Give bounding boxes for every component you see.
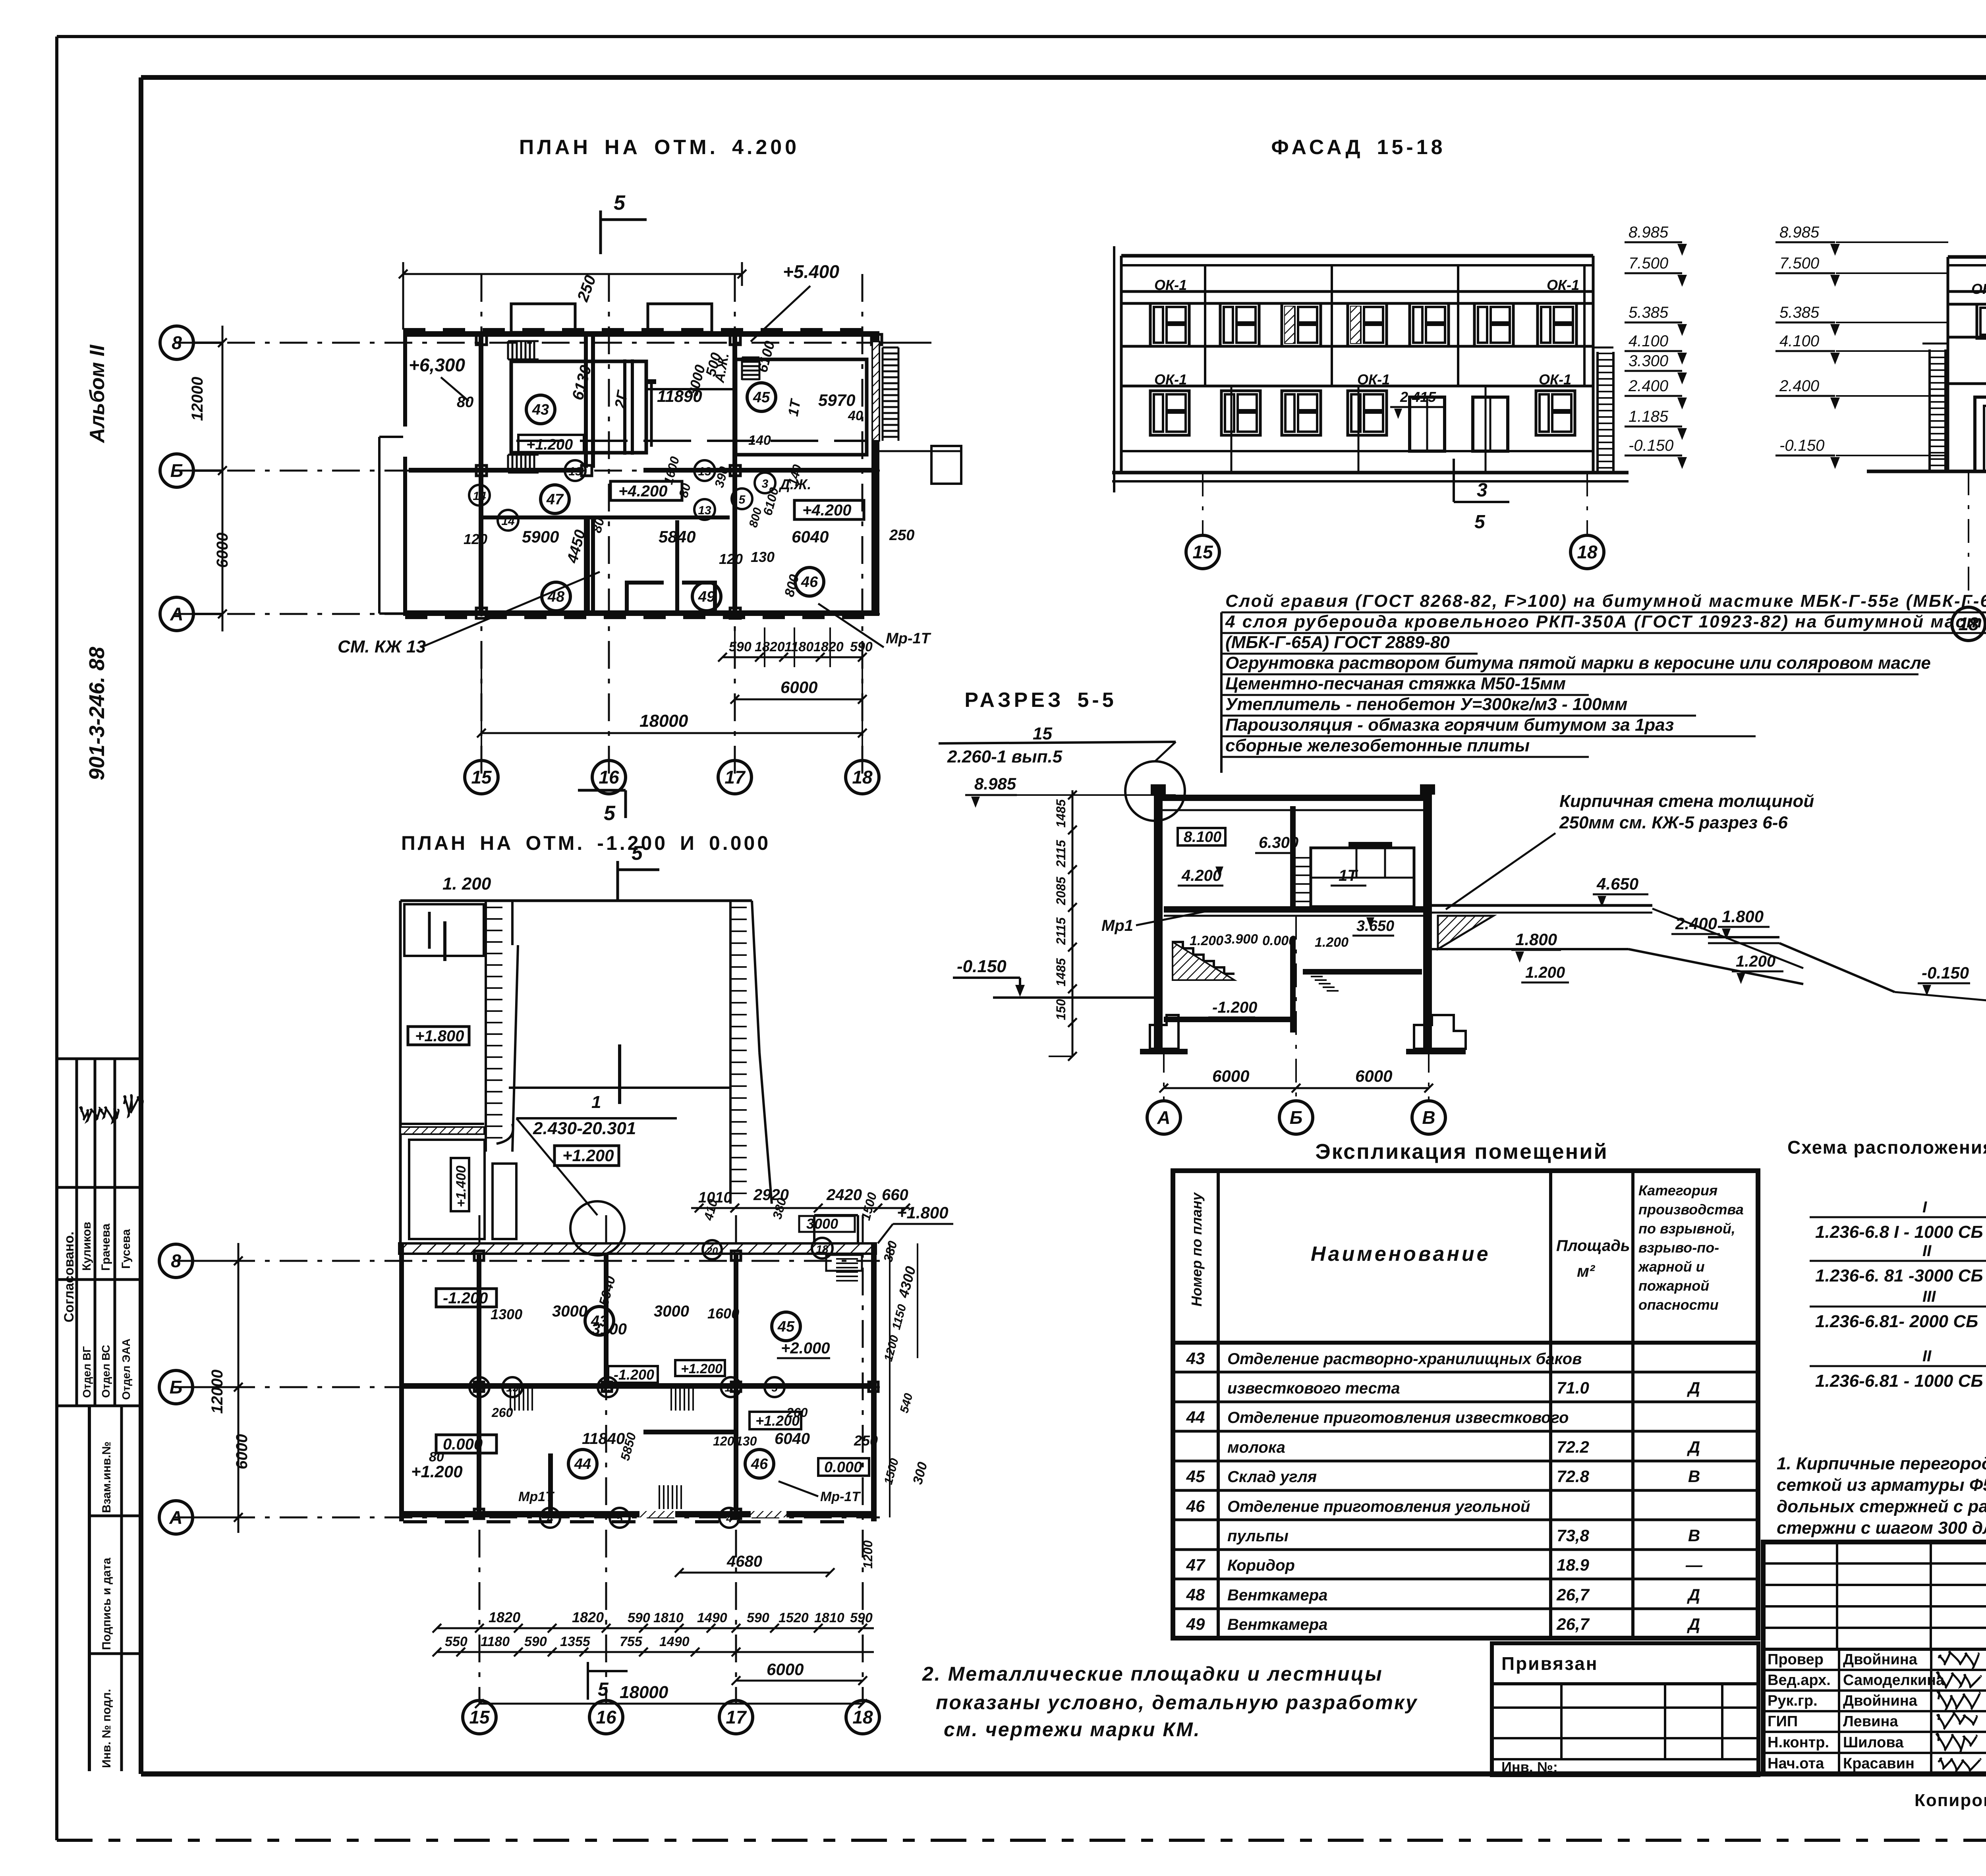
svg-text:46: 46	[801, 574, 818, 591]
svg-text:72.8: 72.8	[1557, 1467, 1589, 1486]
svg-text:1600: 1600	[707, 1305, 739, 1322]
svg-text:130: 130	[751, 549, 775, 565]
facade 15-18: horizontal lines	[1121, 290, 1593, 293]
svg-text:Провер: Провер	[1768, 1651, 1824, 1668]
svg-text:13: 13	[724, 1382, 737, 1394]
plan2: outer walls of room block	[399, 1243, 404, 1521]
svg-text:1820: 1820	[489, 1609, 520, 1625]
plan 4.200: left axis circles	[160, 326, 193, 359]
svg-text:13: 13	[698, 465, 711, 478]
svg-text:III: III	[1922, 1288, 1936, 1305]
svg-text:+1.400: +1.400	[454, 1166, 469, 1207]
svg-text:3.900: 3.900	[1224, 932, 1258, 947]
svg-text:4.100: 4.100	[1629, 332, 1668, 350]
plan 4.200: dimension line top	[403, 273, 742, 275]
svg-text:1490: 1490	[697, 1610, 727, 1625]
svg-text:250мм см. КЖ-5 разрез 6-6: 250мм см. КЖ-5 разрез 6-6	[1559, 813, 1788, 832]
svg-text:+1.200: +1.200	[526, 436, 573, 453]
svg-text:В: В	[1422, 1107, 1435, 1128]
svg-text:1520: 1520	[779, 1610, 809, 1625]
svg-text:Красавин: Красавин	[1843, 1755, 1915, 1772]
svg-text:130: 130	[736, 1434, 757, 1448]
svg-text:12000: 12000	[189, 377, 206, 421]
plan2: bottom axis circles	[463, 1700, 496, 1734]
svg-text:260: 260	[786, 1405, 808, 1420]
svg-text:(МБК-Г-65А) ГОСТ 2889-80: (МБК-Г-65А) ГОСТ 2889-80	[1225, 633, 1450, 652]
section: parapet tops	[1151, 784, 1166, 795]
svg-text:А: А	[170, 604, 183, 624]
svg-text:Согласовано.: Согласовано.	[62, 1231, 77, 1322]
plan 4.200: right outside lines	[879, 342, 931, 344]
svg-text:15: 15	[469, 1707, 490, 1727]
svg-text:1.800: 1.800	[1515, 930, 1557, 949]
svg-text:2.400: 2.400	[1675, 914, 1717, 933]
svg-text:8: 8	[172, 332, 182, 353]
title block: signature rows	[1838, 1649, 1840, 1774]
plan2: elevation boxes	[436, 1289, 496, 1307]
svg-text:13: 13	[568, 465, 582, 478]
svg-text:-0.150: -0.150	[1629, 437, 1673, 454]
explication table frame	[1173, 1171, 1758, 1638]
svg-text:Отдел ВГ: Отдел ВГ	[81, 1346, 93, 1398]
svg-text:3000: 3000	[654, 1303, 689, 1320]
svg-text:71.0: 71.0	[1557, 1378, 1589, 1397]
svg-text:ОК-1: ОК-1	[1971, 281, 1986, 297]
section: right gallery/ramp	[1432, 904, 1652, 907]
svg-text:Копировал: Коршунова: Копировал: Коршунова	[1915, 1791, 1986, 1810]
svg-text:1Т: 1Т	[1339, 867, 1358, 884]
svg-text:ОК-1: ОК-1	[1154, 371, 1187, 388]
svg-text:4680: 4680	[726, 1553, 762, 1570]
svg-text:15: 15	[1033, 724, 1052, 743]
svg-text:Вед.арх.: Вед.арх.	[1768, 1672, 1831, 1689]
svg-text:6040: 6040	[792, 527, 829, 546]
svg-text:6000: 6000	[214, 533, 231, 568]
svg-text:Левина: Левина	[1843, 1713, 1898, 1730]
plan2: interior walls	[477, 1254, 481, 1517]
svg-text:49: 49	[1186, 1615, 1205, 1633]
svg-text:3: 3	[1477, 480, 1488, 501]
svg-text:+1.200: +1.200	[681, 1361, 723, 1376]
svg-text:ОК-1: ОК-1	[1547, 277, 1579, 293]
svg-text:45: 45	[1186, 1467, 1205, 1486]
svg-text:8.985: 8.985	[974, 774, 1016, 793]
svg-text:Н.контр.: Н.контр.	[1768, 1734, 1829, 1751]
outer sheet border	[57, 35, 1986, 38]
svg-text:Категория: Категория	[1638, 1182, 1717, 1199]
svg-text:46: 46	[1186, 1497, 1205, 1515]
plan 4.200: interior walls	[479, 337, 483, 610]
svg-text:2.260-1 вып.5: 2.260-1 вып.5	[947, 747, 1063, 766]
svg-text:Самоделкина: Самоделкина	[1843, 1672, 1945, 1689]
plan 4.200: small wall stubs and door squares	[476, 334, 487, 345]
plan 4.200: section mark 5 bottom	[578, 789, 626, 792]
section: upper interior	[1311, 848, 1414, 907]
svg-text:Схема расположения элементов: Схема расположения элементов заполнения …	[1787, 1137, 1986, 1158]
svg-text:80: 80	[429, 1449, 444, 1465]
plan2: big node circle	[570, 1201, 624, 1255]
svg-text:660: 660	[882, 1186, 908, 1204]
svg-text:2.430-20.301: 2.430-20.301	[533, 1119, 636, 1138]
plan 4.200: small axis bubbles inside	[565, 460, 585, 481]
facade 18-15: outline	[1948, 255, 1986, 259]
facade 15-18: doors	[1410, 397, 1445, 451]
plan2: left chute with ticks	[485, 901, 487, 1152]
section: detail circle	[1125, 761, 1185, 821]
plan2: left axis circles	[159, 1244, 193, 1278]
svg-text:ПЛАН НА ОТМ. -1.200 И 0.000: ПЛАН НА ОТМ. -1.200 И 0.000	[401, 832, 771, 854]
svg-text:1.200: 1.200	[1736, 953, 1775, 970]
svg-text:СМ. КЖ 13: СМ. КЖ 13	[338, 637, 426, 656]
svg-text:16: 16	[596, 1707, 616, 1727]
plan 4.200: tambour L-walls at bottom	[625, 584, 629, 612]
facade 15-18: section mark 3/5	[1453, 459, 1455, 502]
svg-text:7.500: 7.500	[1779, 255, 1819, 272]
svg-text:Гусева: Гусева	[120, 1229, 133, 1269]
svg-text:пульпы: пульпы	[1227, 1527, 1289, 1545]
svg-text:5: 5	[614, 191, 626, 214]
svg-text:Инв. № подл.: Инв. № подл.	[100, 1689, 113, 1768]
svg-text:1820: 1820	[755, 639, 785, 654]
svg-text:Огрунтовка раствором битума пя: Огрунтовка раствором битума пятой марки …	[1225, 653, 1931, 673]
svg-text:Д: Д	[1687, 1615, 1700, 1633]
left margin stamp cells	[88, 1406, 91, 1771]
svg-text:44: 44	[1186, 1408, 1205, 1426]
facade 15-18: lower windows	[1150, 391, 1189, 435]
svg-text:2.400: 2.400	[1628, 377, 1668, 395]
svg-text:Альбом II: Альбом II	[86, 344, 109, 444]
svg-text:140: 140	[748, 433, 771, 448]
plan 4.200: left lower outer wall	[403, 457, 407, 616]
plan2: wall junction squares	[474, 1251, 484, 1260]
svg-text:0.000: 0.000	[824, 1459, 862, 1476]
svg-text:590: 590	[729, 639, 752, 654]
svg-text:45: 45	[753, 389, 770, 406]
svg-text:18.9: 18.9	[1557, 1556, 1589, 1574]
facade 15-18: fire ladder right	[1596, 352, 1599, 473]
plan 4.200: bottom dimension chains	[723, 656, 862, 658]
plan2: labels in tank area	[408, 1027, 469, 1045]
svg-text:Рук.гр.: Рук.гр.	[1768, 1693, 1818, 1709]
section: small stair right of axis B	[1307, 972, 1319, 974]
svg-text:901-3-246. 88: 901-3-246. 88	[85, 647, 109, 780]
svg-text:4: 4	[726, 1512, 732, 1525]
svg-text:13: 13	[601, 1382, 614, 1394]
svg-text:18: 18	[1577, 542, 1598, 562]
svg-text:4.200: 4.200	[1181, 867, 1221, 884]
plan 4.200: stairs top-left	[507, 341, 509, 359]
svg-text:755: 755	[620, 1634, 643, 1649]
svg-text:взрыво-по-: взрыво-по-	[1638, 1239, 1719, 1256]
svg-text:5900: 5900	[522, 527, 559, 546]
svg-text:В: В	[1688, 1526, 1700, 1545]
plan 4.200: right wall hatch	[871, 337, 879, 615]
svg-text:250: 250	[854, 1432, 878, 1449]
section: building outline	[1154, 795, 1432, 801]
svg-text:2. Металлические площадки: 2. Металлические площадки и лестницы	[922, 1663, 1383, 1685]
svg-text:1.236-6. 81 -3000 СБ: 1.236-6. 81 -3000 СБ	[1815, 1266, 1983, 1285]
svg-text:6000: 6000	[233, 1434, 251, 1469]
svg-text:-0.150: -0.150	[957, 957, 1007, 976]
svg-text:5.385: 5.385	[1779, 304, 1820, 321]
section: elevation boxes inside	[1178, 828, 1225, 845]
svg-text:ПЛАН НА ОТМ. 4.200: ПЛАН НА ОТМ. 4.200	[519, 136, 800, 159]
svg-text:Двойнина: Двойнина	[1843, 1693, 1918, 1709]
svg-text:17: 17	[724, 767, 746, 787]
svg-text:опасности: опасности	[1638, 1297, 1719, 1313]
svg-text:-1.200: -1.200	[443, 1289, 488, 1307]
section mark 5 above plan	[599, 210, 602, 254]
plan 4.200: monorail dashed line	[516, 440, 866, 442]
plan2: section mark 5 bottom	[587, 1662, 589, 1700]
svg-text:1820: 1820	[572, 1609, 604, 1625]
svg-text:стержни с шагом 300 длиной: стержни с шагом 300 длиной 100 мм	[1777, 1518, 1986, 1538]
svg-text:-0.150: -0.150	[1779, 437, 1824, 454]
plan2: tank structure top	[400, 899, 752, 902]
svg-text:1.800: 1.800	[1722, 907, 1764, 926]
svg-text:590: 590	[524, 1634, 547, 1649]
svg-text:1300: 1300	[491, 1306, 522, 1322]
svg-text:Отдел ВС: Отдел ВС	[100, 1345, 112, 1398]
svg-text:13: 13	[506, 1382, 519, 1394]
svg-text:14: 14	[473, 490, 486, 503]
svg-text:Б: Б	[170, 460, 184, 481]
svg-text:18: 18	[852, 1707, 873, 1727]
svg-text:Взам.инв.№: Взам.инв.№	[100, 1442, 113, 1513]
svg-text:Д: Д	[1687, 1438, 1700, 1456]
svg-text:3000: 3000	[552, 1303, 587, 1320]
svg-text:73,8: 73,8	[1557, 1526, 1589, 1545]
svg-text:Отделение приготовления угольн: Отделение приготовления угольной	[1227, 1498, 1530, 1515]
svg-text:II: II	[1922, 1242, 1932, 1260]
svg-text:15: 15	[1192, 542, 1213, 562]
plan2: small axis bubbles	[469, 1377, 489, 1397]
svg-text:44: 44	[574, 1456, 591, 1473]
svg-text:Двойнина: Двойнина	[1843, 1651, 1918, 1668]
svg-text:120: 120	[719, 551, 743, 567]
svg-text:А: А	[1157, 1107, 1170, 1128]
svg-text:6000: 6000	[1355, 1067, 1392, 1085]
svg-text:260: 260	[491, 1405, 513, 1420]
svg-text:Слой гравия (ГОСТ 8268-82, F>1: Слой гравия (ГОСТ 8268-82, F>100) на бит…	[1225, 591, 1986, 611]
svg-text:20: 20	[706, 1245, 718, 1257]
svg-text:8.985: 8.985	[1779, 224, 1820, 241]
plan 4.200: stair mid (axis17)	[742, 357, 759, 359]
svg-text:+1.200: +1.200	[562, 1146, 614, 1165]
svg-text:6.300: 6.300	[1259, 834, 1298, 851]
svg-text:Склад угля: Склад угля	[1227, 1468, 1317, 1486]
svg-text:+6,300: +6,300	[409, 355, 465, 375]
plan2: stairs bottom door hatches	[639, 1511, 675, 1517]
facade 18-15: door	[1975, 397, 1986, 471]
svg-text:+4.200: +4.200	[618, 483, 667, 500]
svg-text:1. 200: 1. 200	[442, 874, 491, 894]
svg-text:120: 120	[713, 1434, 734, 1448]
svg-text:1355: 1355	[560, 1634, 591, 1649]
svg-text:Венткамера: Венткамера	[1227, 1586, 1327, 1604]
plan 4.200: axis dash-dot lines	[175, 342, 880, 344]
svg-text:1820: 1820	[813, 639, 844, 654]
svg-text:5970: 5970	[818, 391, 855, 409]
svg-text:+1.800: +1.800	[897, 1203, 949, 1222]
svg-text:11840: 11840	[582, 1430, 625, 1448]
svg-text:1485: 1485	[1054, 799, 1068, 828]
svg-text:590: 590	[747, 1610, 769, 1625]
svg-text:Инв. №:: Инв. №:	[1501, 1759, 1558, 1775]
svg-text:46: 46	[751, 1456, 768, 1473]
facade 18-15: horizontal lines	[1948, 290, 1986, 293]
svg-text:Мр1: Мр1	[1101, 917, 1133, 934]
svg-text:1: 1	[591, 1092, 601, 1112]
svg-text:1.185: 1.185	[1629, 408, 1669, 425]
plan2: left small room	[404, 904, 484, 956]
svg-text:120: 120	[464, 531, 487, 547]
svg-text:сборные железобетонные плиты: сборные железобетонные плиты	[1225, 736, 1530, 755]
svg-text:Шилова: Шилова	[1843, 1734, 1904, 1751]
svg-text:5: 5	[1474, 511, 1486, 533]
svg-text:6000: 6000	[767, 1660, 804, 1679]
svg-text:1.236-6.8 I - 1000 СБ: 1.236-6.8 I - 1000 СБ	[1815, 1222, 1983, 1242]
svg-text:-1.200: -1.200	[1212, 999, 1257, 1016]
svg-text:5: 5	[616, 1512, 623, 1525]
svg-text:показаны условно, детальную: показаны условно, детальную разработку	[936, 1691, 1418, 1714]
plan2: bottom dimension chains	[437, 1627, 874, 1629]
svg-text:590: 590	[628, 1610, 650, 1625]
svg-text:47: 47	[546, 491, 564, 508]
svg-text:550: 550	[445, 1634, 468, 1649]
svg-text:Привязан: Привязан	[1501, 1653, 1598, 1674]
svg-text:Отдел ЭАА: Отдел ЭАА	[120, 1339, 132, 1400]
plan2: vertical marks in tank	[443, 921, 446, 961]
svg-text:6000: 6000	[780, 678, 817, 697]
svg-text:1200: 1200	[861, 1540, 875, 1569]
svg-text:5: 5	[632, 842, 643, 864]
svg-text:14: 14	[473, 1382, 486, 1394]
svg-text:1180: 1180	[481, 1634, 510, 1649]
svg-text:12000: 12000	[209, 1370, 226, 1414]
svg-text:15: 15	[471, 767, 492, 787]
section: bottom dims and axes	[1164, 1087, 1429, 1089]
svg-text:47: 47	[1186, 1556, 1206, 1574]
svg-text:Экспликация помещений: Экспликация помещений	[1315, 1140, 1608, 1164]
svg-text:+1.800: +1.800	[415, 1027, 464, 1045]
section: footing blocks	[1150, 1015, 1178, 1049]
svg-text:ГИП: ГИП	[1768, 1713, 1798, 1730]
svg-text:5.385: 5.385	[1629, 304, 1669, 321]
svg-text:В: В	[1688, 1467, 1700, 1486]
plan 4.200: stairs below-left	[507, 455, 509, 473]
left margin approval table	[58, 1058, 140, 1060]
svg-text:1.200: 1.200	[1525, 964, 1565, 981]
svg-text:Венткамера: Венткамера	[1227, 1616, 1327, 1633]
svg-text:250: 250	[889, 527, 914, 544]
svg-text:8.100: 8.100	[1184, 829, 1221, 845]
svg-text:+4.200: +4.200	[802, 502, 851, 519]
svg-text:1485: 1485	[1054, 958, 1068, 986]
svg-text:2Г: 2Г	[612, 389, 632, 410]
section: left dim chain	[1072, 790, 1074, 1056]
svg-text:5: 5	[771, 1382, 778, 1394]
section: stairs upper	[1296, 857, 1311, 859]
svg-text:16: 16	[599, 767, 619, 787]
svg-text:4.650: 4.650	[1596, 874, 1638, 893]
svg-text:Отделение приготовления извест: Отделение приготовления известкового	[1227, 1409, 1569, 1426]
svg-text:1810: 1810	[653, 1610, 684, 1625]
plan2: stairs small	[510, 1388, 511, 1411]
svg-text:49: 49	[698, 589, 715, 605]
svg-text:Пароизоляция - обмазка горячим: Пароизоляция - обмазка горячим битумом з…	[1225, 715, 1674, 735]
plan 4.200: outer walls	[403, 331, 879, 337]
plan2: mid horizontal line	[509, 1087, 730, 1089]
svg-text:3.650: 3.650	[1356, 918, 1394, 934]
svg-text:Утеплитель - пенобетон У=300кг: Утеплитель - пенобетон У=300кг/м3 - 100м…	[1225, 695, 1627, 714]
svg-text:1.200: 1.200	[1190, 933, 1223, 948]
svg-text:Д: Д	[1687, 1378, 1700, 1397]
svg-text:43: 43	[532, 401, 549, 418]
svg-text:14: 14	[501, 515, 515, 528]
svg-text:3100: 3100	[591, 1320, 627, 1338]
svg-text:Цементно-песчаная стяжка М50-1: Цементно-песчаная стяжка М50-15мм	[1225, 674, 1566, 693]
plan 4.200: tank walls inside room 43	[511, 361, 646, 453]
svg-text:6040: 6040	[775, 1430, 810, 1448]
svg-text:0.000: 0.000	[443, 1436, 483, 1453]
svg-text:—: —	[1685, 1556, 1703, 1574]
section: stairs lower-left	[1173, 942, 1234, 974]
svg-text:дольных стержней с расстояни: дольных стержней с расстоянием между ним…	[1777, 1497, 1986, 1516]
svg-text:жарной и: жарной и	[1638, 1258, 1705, 1275]
facade 18-15: upper windows	[1977, 304, 1986, 338]
svg-text:2.415: 2.415	[1400, 389, 1436, 405]
facade 15-18: axis leaders and circles	[1202, 473, 1204, 534]
svg-text:II: II	[1922, 1347, 1932, 1365]
svg-text:1810: 1810	[814, 1610, 844, 1625]
title block upper extension rows	[1763, 1562, 1986, 1565]
svg-text:Номер по плану: Номер по плану	[1188, 1192, 1205, 1307]
section: basement floor & footings	[1164, 1017, 1295, 1022]
svg-text:26,7: 26,7	[1556, 1585, 1590, 1604]
svg-text:Мр1Т: Мр1Т	[518, 1489, 555, 1504]
svg-text:72.2: 72.2	[1557, 1438, 1589, 1456]
svg-text:3000: 3000	[806, 1216, 838, 1232]
svg-text:2115: 2115	[1054, 840, 1068, 868]
svg-text:590: 590	[850, 1610, 873, 1625]
svg-text:5840: 5840	[659, 527, 695, 546]
svg-text:м²: м²	[1577, 1262, 1595, 1280]
plan2: section mark 5 top	[616, 861, 619, 901]
facade 15-18: vertical panel joints	[1204, 265, 1206, 386]
svg-text:I: I	[1922, 1199, 1927, 1216]
svg-text:18: 18	[816, 1243, 829, 1255]
svg-text:48: 48	[1186, 1585, 1205, 1604]
svg-text:7.500: 7.500	[1629, 255, 1668, 272]
plan 4.200: bottom axis circles	[465, 760, 498, 794]
svg-text:по взрывной,: по взрывной,	[1638, 1220, 1735, 1237]
svg-text:26,7: 26,7	[1556, 1615, 1590, 1633]
svg-text:3.300: 3.300	[1629, 352, 1668, 370]
plan2: axis B hatched wall	[399, 1243, 876, 1254]
svg-text:18: 18	[852, 767, 873, 787]
svg-text:+2.000: +2.000	[781, 1339, 830, 1357]
plan2: room labels	[585, 1307, 614, 1335]
svg-text:45: 45	[777, 1318, 795, 1335]
svg-text:5: 5	[604, 802, 616, 825]
plan2: left wall lower part	[400, 1123, 484, 1125]
facade 18-15: ladder left	[1928, 349, 1931, 471]
svg-text:Д: Д	[1687, 1585, 1700, 1604]
svg-text:см. чертежи марки КМ.: см. чертежи марки КМ.	[944, 1718, 1201, 1741]
svg-text:5: 5	[598, 1679, 609, 1700]
svg-text:Кирпичная стена толщиной: Кирпичная стена толщиной	[1559, 791, 1814, 811]
